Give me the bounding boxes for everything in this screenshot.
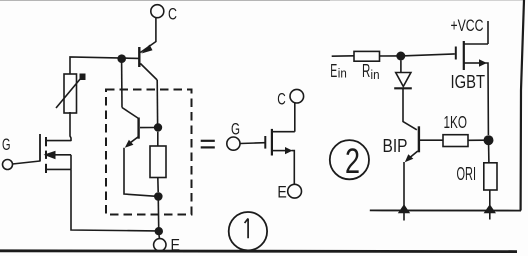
transistor Q2 emitter arrow [125, 140, 134, 148]
wire Q1 emitter to terminal C [155, 18, 157, 42]
svg-text:2: 2 [345, 142, 360, 181]
wire ORI down to rail [489, 190, 491, 220]
resistor Rin body [354, 51, 380, 61]
transistor BIP base bar [418, 126, 420, 152]
wire Q2 emitter down to node D [124, 148, 155, 196]
svg-text:G: G [231, 120, 240, 139]
wire node N1 to IGBT gate [405, 54, 455, 56]
svg-text:BIP: BIP [383, 136, 408, 156]
transistor Q1 emitter arrow [142, 45, 153, 54]
svg-text:E: E [330, 61, 337, 81]
wire RV top to Q1 base [70, 57, 139, 74]
emitter arrow (right IGBT) [479, 59, 487, 66]
variable resistor RV body [64, 74, 77, 113]
terminal E (left) [154, 236, 180, 255]
diode D1 triangle [396, 73, 411, 87]
wire BIP emitter down to rail [403, 162, 405, 221]
resistor R1 body [150, 146, 166, 178]
E node junction dot [155, 227, 163, 235]
IGBT (right) gate bar [455, 47, 457, 60]
IGBT (right) emitter stub [464, 62, 479, 64]
transistor Q1 collector diagonal [140, 64, 157, 81]
MOSFET M1 gate bar [39, 134, 41, 162]
emitter arrow (middle) [285, 147, 293, 154]
wire G to MOSFET gate [13, 161, 41, 164]
transistor Q2 collector diagonal [122, 108, 139, 119]
right border line [521, 0, 524, 211]
MOSFET M1 drain stub [47, 140, 72, 142]
IGBT channel bar (middle) [271, 129, 273, 156]
wire node B to R1 [157, 132, 159, 146]
node A junction dot [117, 54, 126, 63]
top scan edge line [0, 0, 330, 2]
IGBT gate bar (middle) [264, 136, 266, 149]
diode D1 wire from node N1 [400, 61, 402, 73]
svg-text:C: C [168, 5, 177, 24]
transistor Q1 (PNP) base bar [138, 47, 140, 67]
IGBT emitter stub with arrow (middle) [272, 150, 286, 152]
terminal E (middle) [277, 183, 301, 202]
node D junction dot [154, 192, 163, 201]
wire source down and right to E node [71, 169, 156, 231]
resistor 1KO body [443, 135, 468, 147]
wire Rin to node N1 [380, 55, 398, 57]
svg-text:in: in [338, 66, 347, 80]
BIP emitter diagonal [408, 151, 418, 160]
bottom border line [0, 249, 517, 253]
wire down to terminal E (middle) [292, 151, 295, 185]
transistor Q2 emitter diagonal [128, 137, 139, 145]
terminal G (left) [2, 135, 13, 170]
svg-text:E: E [277, 183, 286, 202]
svg-text:IGBT: IGBT [451, 72, 486, 92]
svg-text:1KO: 1KO [444, 112, 468, 132]
svg-text:G: G [2, 135, 11, 154]
resistor ORI body [484, 163, 497, 190]
terminal C (middle) [277, 89, 303, 108]
rail junction dot (ORI) [484, 204, 496, 213]
transistor Q1 emitter diagonal [140, 42, 156, 53]
wire to terminal E [158, 235, 161, 239]
diode D1 cathode bar [394, 87, 412, 89]
IGBT (right) channel bar [463, 41, 465, 70]
dashed box (parasitic thyristor) [106, 90, 192, 215]
wire BIP base to 1KO [420, 139, 443, 141]
transistor Q2 (NPN) base bar [137, 118, 139, 139]
IGBT (right) collector stub [464, 43, 488, 45]
figure number 1 circle [229, 212, 267, 250]
wire diode to BIP collector [403, 88, 417, 130]
svg-text:ORI: ORI [457, 164, 477, 184]
variable resistor RV square head [80, 74, 86, 81]
wire R1 to node D [157, 178, 159, 193]
node N2 junction dot [484, 135, 494, 145]
wire emitter down to node N2 [484, 63, 489, 135]
IGBT collector stub (middle) [272, 131, 295, 133]
MOSFET M1 channel segments [45, 137, 47, 173]
MOSFET M1 body stub [54, 154, 71, 156]
svg-text:R: R [362, 61, 370, 81]
wire Q2 base to node B [140, 127, 155, 129]
svg-text:C: C [277, 90, 286, 109]
wire G to gate bar [240, 142, 265, 145]
svg-text:+VCC: +VCC [451, 17, 484, 35]
wire drain up to variable resistor [70, 112, 71, 141]
wire up to terminal C (middle) [294, 103, 296, 132]
input wire Ein [332, 55, 354, 57]
wire body to source [70, 155, 72, 170]
wire node D to E node [157, 201, 159, 228]
terminal G (middle) [227, 120, 240, 151]
terminal C (left) [151, 5, 177, 24]
node B junction dot [154, 123, 162, 131]
wire Q2 collector up to node A [121, 61, 123, 108]
wire 1KO to node N2 [468, 139, 484, 141]
equals sign [201, 141, 215, 148]
emitter rail (bottom wire) [370, 209, 521, 211]
node N1 junction dot [396, 52, 405, 61]
MOSFET M1 source stub [47, 168, 72, 170]
rail junction dot (BIP emitter) [398, 204, 410, 213]
MOSFET M1 body arrow [44, 151, 56, 160]
variable resistor RV diagonal arrow [56, 78, 81, 108]
svg-text:in: in [371, 68, 380, 82]
wire node N2 to ORI [488, 145, 490, 163]
wire up to +VCC [487, 21, 489, 44]
wire Q1 collector down to node B [156, 80, 158, 124]
BIP emitter arrow [405, 154, 414, 162]
figure number 2 circle [330, 140, 369, 181]
